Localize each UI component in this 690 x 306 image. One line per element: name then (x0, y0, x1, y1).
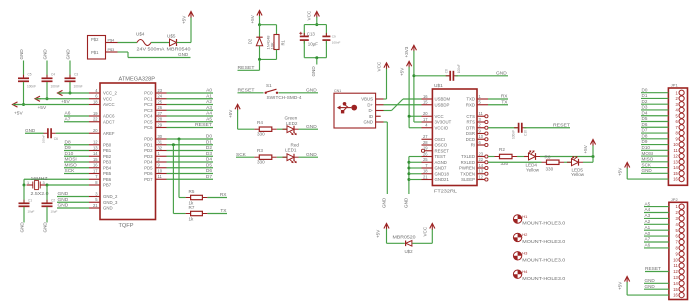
pin 11 (JP2) (674, 263, 685, 268)
wire R3 to LED1 (277, 156, 287, 158)
pin 14 PB2 (89, 151, 112, 159)
svg-text:P$1: P$1 (91, 50, 99, 55)
svg-text:13: 13 (479, 169, 484, 174)
pin 8 PB7 (89, 180, 112, 188)
pin 1 (JP1) (676, 90, 685, 95)
svg-text:GND: GND (645, 278, 656, 283)
wire gnd rail branch (409, 173, 422, 175)
pin 9 (JP2) (676, 251, 685, 256)
svg-text:D4: D4 (206, 157, 212, 163)
pin 27 OSCI (U$1) (422, 134, 446, 142)
diode U$5 MBR0540 (167, 33, 192, 51)
+5V supply (VCC_2 row) (58, 90, 71, 105)
svg-text:A2: A2 (206, 99, 212, 105)
svg-text:12: 12 (479, 174, 484, 179)
svg-text:A4: A4 (206, 111, 212, 117)
net D8 (64, 139, 89, 145)
svg-text:PB6: PB6 (103, 177, 112, 182)
svg-text:A2: A2 (645, 219, 651, 224)
junction (D0/RX) (178, 138, 181, 141)
capacitor C6 100nF (AREF) (42, 128, 58, 143)
pin 10 (JP2) (673, 257, 684, 262)
pin 9 PD5 (144, 163, 166, 171)
svg-text:AGND: AGND (435, 160, 447, 165)
svg-text:USBDM: USBDM (435, 97, 451, 102)
svg-text:13: 13 (673, 275, 678, 280)
svg-text:GND: GND (382, 197, 387, 208)
svg-text:D7: D7 (642, 128, 648, 133)
capacitor C8 100nF (444, 64, 461, 81)
svg-text:10K: 10K (269, 42, 274, 49)
wire diode to VCC (412, 242, 432, 244)
pin 3 (JP1) (676, 102, 685, 107)
svg-text:3V3OUT: 3V3OUT (435, 120, 452, 125)
mounting hole H4 (513, 269, 566, 281)
wire gnd rail branch (409, 179, 422, 181)
pin 7 GND7 (U$1) (422, 163, 448, 171)
net MISO (JP1) (641, 157, 668, 162)
svg-text:USBDP: USBDP (435, 102, 450, 107)
svg-text:RXLED: RXLED (461, 160, 475, 165)
svg-text:RX: RX (501, 94, 508, 100)
svg-text:100nF: 100nF (51, 85, 60, 89)
pin 11 PD7 (144, 174, 166, 182)
wire R2 to LED4 (517, 156, 529, 158)
svg-text:11: 11 (479, 111, 484, 116)
net A2 (167, 99, 214, 105)
svg-text:PC6: PC6 (144, 125, 153, 130)
svg-text:H3: H3 (522, 251, 528, 256)
svg-text:21: 21 (93, 203, 98, 208)
USB-serial U$1 FT232RL (432, 83, 477, 195)
resistor R7 1k (186, 205, 208, 221)
svg-text:15: 15 (423, 100, 428, 105)
svg-text:TXDEN: TXDEN (460, 171, 475, 176)
svg-text:+5V: +5V (61, 99, 70, 105)
svg-text:100nF: 100nF (332, 40, 341, 44)
svg-text:10µF: 10µF (308, 41, 318, 46)
svg-text:26: 26 (158, 105, 163, 110)
pin 21 GND (89, 203, 113, 211)
mounting hole H2 (513, 232, 566, 244)
svg-text:C13: C13 (307, 31, 316, 36)
USB connector CN1 (334, 89, 376, 128)
wire C4 bottom (46, 82, 48, 99)
wire LED4 to +5V rail (540, 156, 593, 158)
wire +5V to JP2 pin16 (626, 282, 628, 295)
pin 26 PC3 (144, 105, 166, 113)
net D2 (JP1) (641, 99, 668, 104)
pin 1 TXD (U$1) (466, 94, 488, 102)
net RESET (PC6) (167, 122, 214, 128)
pin 6 RI (U$1) (471, 140, 488, 148)
svg-text:+3V3: +3V3 (404, 46, 409, 57)
svg-text:ID: ID (369, 114, 373, 119)
svg-text:D5: D5 (206, 162, 212, 168)
svg-text:30: 30 (158, 134, 163, 139)
svg-text:RXD: RXD (466, 102, 475, 107)
svg-text:SWITCH-SMD-4: SWITCH-SMD-4 (267, 95, 302, 100)
wire LED2 to GND (299, 128, 319, 130)
svg-text:A3: A3 (206, 105, 212, 111)
pin 10 (JP1) (673, 142, 684, 147)
wire GND to C6 (25, 132, 44, 134)
net D0 (167, 134, 214, 140)
svg-text:GND: GND (496, 70, 507, 76)
svg-text:D4: D4 (642, 110, 648, 115)
junction (crystal left) (23, 184, 26, 187)
svg-text:TX: TX (220, 208, 227, 214)
wire top rail C13 (304, 24, 326, 26)
svg-text:26: 26 (423, 151, 428, 156)
pin 6 VCC (89, 94, 112, 102)
junction (C13 bottom) (315, 56, 318, 59)
switch S1 SWITCH-SMD-4 (265, 83, 302, 100)
svg-text:PD3: PD3 (144, 154, 153, 159)
pin 3 RTS (U$1) (466, 117, 488, 125)
svg-text:24: 24 (158, 94, 163, 99)
svg-text:VCC: VCC (435, 114, 444, 119)
svg-text:20: 20 (423, 111, 428, 116)
svg-text:GND: GND (642, 168, 653, 173)
wire P$3 to GND (118, 51, 129, 53)
svg-text:VCCIO: VCCIO (435, 125, 449, 130)
pin 6 (JP1) (676, 119, 685, 124)
wire crystal to C2 (46, 185, 48, 203)
net GND (JP2) (644, 278, 669, 283)
svg-text:D+: D+ (367, 102, 373, 107)
svg-text:+5V: +5V (181, 15, 186, 24)
pin 4 VCCIO (U$1) (422, 123, 449, 131)
diode D2 1N4148 (248, 25, 271, 50)
svg-text:GND: GND (403, 197, 408, 208)
svg-text:RESET: RESET (195, 122, 212, 128)
svg-text:PWREN: PWREN (459, 166, 475, 171)
svg-text:C6: C6 (54, 137, 58, 141)
svg-text:A5: A5 (645, 201, 651, 206)
pin 14 (JP2) (673, 281, 684, 286)
svg-text:VCC: VCC (307, 10, 312, 20)
svg-text:R7: R7 (189, 205, 195, 210)
svg-text:A4: A4 (645, 207, 651, 212)
wire C4 top (46, 61, 48, 78)
svg-text:RTS: RTS (466, 120, 475, 125)
pin 19 RESET (U$1) (421, 146, 449, 154)
svg-text:1k: 1k (189, 216, 195, 221)
svg-text:16: 16 (673, 293, 678, 298)
svg-text:100nF: 100nF (74, 85, 83, 89)
net D2 (167, 145, 214, 151)
svg-text:15: 15 (673, 171, 678, 176)
pin 8 (JP1) (676, 130, 685, 135)
VCC supply (USB) (377, 61, 390, 71)
pin 14 (JP1) (673, 165, 684, 170)
+5V supply (bridge) (375, 224, 389, 239)
svg-text:24V 500mA: 24V 500mA (137, 47, 166, 52)
svg-text:R5: R5 (189, 189, 195, 194)
pin VBUS (CN1) (361, 97, 383, 102)
wire C6 to AREF (56, 132, 89, 134)
pin 18 GND18 (U$1) (422, 169, 450, 177)
svg-text:GND_2: GND_2 (103, 194, 118, 199)
svg-text:VCC: VCC (377, 61, 382, 71)
svg-text:10: 10 (479, 134, 484, 139)
net D9 (JP1) (641, 139, 668, 144)
svg-text:GND: GND (19, 222, 24, 233)
svg-text:27: 27 (158, 111, 163, 116)
svg-text:11: 11 (158, 174, 163, 179)
svg-text:RX: RX (220, 192, 227, 198)
svg-text:JP1: JP1 (671, 83, 679, 88)
junction (gnd rail) (407, 178, 410, 181)
wire +5V to AVCC (13, 104, 89, 106)
net D9 (64, 145, 89, 151)
svg-text:12: 12 (673, 154, 678, 159)
pin 2 (JP2) (676, 210, 685, 215)
svg-text:C9: C9 (332, 34, 336, 38)
wire D0 to R5 (178, 139, 180, 198)
capacitor C4 100nF (42, 72, 60, 88)
wire C3 top (69, 61, 71, 78)
wire C1 to ground (23, 207, 25, 223)
+5V supply (JP1) (617, 163, 629, 177)
wire crystal to C1 (23, 185, 25, 203)
svg-text:SLEEP: SLEEP (461, 177, 475, 182)
svg-text:PC5: PC5 (144, 119, 153, 124)
svg-text:C3: C3 (74, 72, 78, 76)
svg-text:13: 13 (673, 159, 678, 164)
capacitor C9 100nF (322, 33, 340, 44)
LED4 yellow (524, 150, 540, 172)
svg-text:330: 330 (257, 160, 265, 165)
svg-text:GND: GND (65, 49, 70, 60)
svg-text:PD5: PD5 (144, 165, 153, 170)
svg-text:+5V: +5V (399, 67, 404, 76)
svg-text:11: 11 (674, 263, 679, 268)
crystal Q1 16MHZ (27, 176, 50, 196)
pin 25 AGND (U$1) (422, 157, 447, 165)
net A7 (64, 116, 89, 122)
svg-text:D-: D- (368, 108, 373, 113)
pin 15 PB3 (89, 157, 112, 165)
svg-text:MISO: MISO (642, 157, 654, 162)
svg-text:S1: S1 (266, 83, 272, 88)
net D1 (167, 139, 214, 145)
svg-text:A0: A0 (645, 231, 651, 236)
VCC supply (bridge) (422, 224, 435, 237)
svg-text:D6: D6 (642, 122, 648, 127)
pin 16 USBDM (U$1) (422, 94, 451, 102)
wire DTR to C10 (488, 127, 518, 129)
wire gnd rail branch (409, 161, 422, 163)
net MOSI (JP1) (641, 151, 668, 156)
mounting hole H3 (513, 251, 566, 263)
svg-text:PB2: PB2 (103, 154, 112, 159)
wire VCC down (316, 17, 318, 25)
USB icon (337, 102, 357, 113)
svg-text:H2: H2 (522, 232, 528, 237)
svg-text:14: 14 (673, 281, 678, 286)
svg-text:ADC6: ADC6 (103, 114, 115, 119)
svg-text:GND: GND (311, 66, 316, 77)
svg-text:DSR: DSR (466, 131, 475, 136)
svg-text:+5V: +5V (375, 229, 380, 238)
svg-text:PC3: PC3 (144, 108, 153, 113)
svg-text:10pF: 10pF (28, 210, 35, 214)
wire R4 to LED2 (277, 128, 287, 130)
svg-text:22: 22 (479, 157, 484, 162)
LED1 red (283, 143, 300, 164)
pin 13 (JP1) (673, 159, 684, 164)
svg-text:SCK: SCK (642, 162, 652, 167)
pin 23 TXLED (U$1) (461, 151, 488, 159)
svg-text:16: 16 (673, 177, 678, 182)
junction (LED rail) (592, 155, 595, 158)
svg-text:15: 15 (93, 157, 98, 162)
svg-text:U$4: U$4 (136, 32, 145, 37)
svg-text:D2: D2 (206, 145, 212, 151)
wire RXLED to R6 (488, 161, 542, 163)
junction (C4) (46, 97, 49, 100)
net D5 (JP1) (641, 116, 668, 121)
resistor R1 10K (269, 35, 285, 50)
svg-text:13: 13 (93, 145, 98, 150)
pin 4 (JP1) (676, 107, 685, 112)
pin P$3 (106, 48, 118, 52)
svg-text:22: 22 (93, 117, 98, 122)
pin 15 USBDP (U$1) (422, 100, 450, 108)
svg-text:U$1: U$1 (434, 83, 443, 89)
pin 10 DCD (U$1) (466, 134, 488, 142)
pin 4 VCC_2 (89, 88, 117, 96)
wire D2 bottom (259, 46, 261, 60)
wire top rail (260, 24, 277, 26)
+5V supply (AVCC row) (13, 102, 24, 116)
svg-text:LED1: LED1 (285, 148, 297, 153)
net D6 (JP1) (641, 122, 668, 127)
net SCK (64, 168, 89, 174)
pin 13 TXDEN (U$1) (460, 169, 488, 177)
pin 18 AVCC (89, 99, 115, 107)
pin 11 CTS (U$1) (466, 111, 488, 119)
svg-text:GND: GND (25, 128, 36, 133)
svg-text:14: 14 (93, 151, 98, 156)
wire R5 to RX (207, 197, 227, 199)
pin 1 (JP2) (676, 204, 685, 209)
pin 13 PB1 (89, 145, 112, 153)
svg-text:GND: GND (42, 49, 47, 60)
pin 32 PD2 (144, 145, 166, 153)
pin 2 (JP1) (676, 96, 685, 101)
net MISO (64, 162, 89, 168)
svg-text:C2: C2 (51, 198, 55, 202)
wire VBUS to VCC (384, 98, 387, 100)
svg-text:R6: R6 (545, 154, 551, 159)
svg-text:R3: R3 (257, 148, 263, 153)
junction (VCC pin20) (408, 115, 411, 118)
net D10 (64, 151, 89, 157)
ground label GND (MCU) (57, 197, 89, 203)
svg-text:ATMEGA328P: ATMEGA328P (119, 77, 156, 83)
svg-text:GND7: GND7 (435, 166, 448, 171)
svg-text:25: 25 (423, 157, 428, 162)
svg-text:15: 15 (673, 287, 678, 292)
wire C5 top (23, 61, 25, 78)
net A4 (167, 111, 214, 117)
svg-text:R2: R2 (499, 147, 505, 152)
net A6 (JP2) (644, 243, 669, 248)
svg-text:17: 17 (93, 168, 98, 173)
net A7 (JP2) (644, 237, 669, 242)
svg-text:Green: Green (285, 115, 298, 120)
pin 22 RXLED (U$1) (461, 157, 488, 165)
capacitor C3 100nF (65, 72, 83, 88)
svg-text:32: 32 (158, 145, 163, 150)
wire to RESET label (259, 59, 261, 70)
LED5 yellow (567, 156, 585, 177)
net D7 (167, 174, 214, 180)
svg-text:Yellow: Yellow (571, 172, 585, 177)
pin 12 (JP1) (673, 153, 684, 158)
svg-text:GND: GND (178, 52, 189, 57)
junction (3V3 cap tap) (412, 74, 415, 77)
svg-text:A6: A6 (645, 243, 651, 248)
svg-text:CN1: CN1 (334, 89, 341, 93)
resistor R6 330 (542, 154, 565, 171)
net RESET (JP2) (645, 266, 669, 271)
ground label GND (MCU) (57, 203, 89, 209)
svg-text:D3: D3 (642, 105, 648, 110)
svg-text:MBR0520: MBR0520 (393, 235, 417, 240)
svg-text:OSCI: OSCI (435, 137, 446, 142)
svg-text:10: 10 (158, 168, 163, 173)
capacitor C13 10uF polarized (299, 31, 318, 46)
svg-text:100nF: 100nF (457, 64, 461, 73)
wire USB GND down (384, 121, 388, 123)
capacitor C5 100nF (18, 72, 36, 88)
svg-text:GND: GND (363, 120, 373, 125)
wire R6 to LED5 (564, 161, 572, 163)
pin 14 PWREN (U$1) (459, 163, 488, 171)
wire diode to +5V (177, 42, 192, 44)
svg-text:+5V: +5V (14, 110, 23, 116)
wire C10 to RESET (524, 127, 570, 129)
pin 2 PD4 (144, 157, 166, 165)
svg-text:PD4: PD4 (144, 160, 153, 165)
svg-text:R1: R1 (280, 39, 285, 45)
net D10 (JP1) (641, 145, 668, 150)
capacitor C2 10pF (42, 198, 58, 213)
pin GND (CN1) (363, 120, 383, 125)
wire D1 to R7 (172, 145, 174, 214)
svg-text:21: 21 (423, 174, 428, 179)
wire R7 to TX (207, 213, 227, 215)
svg-text:16: 16 (93, 163, 98, 168)
svg-text:18: 18 (93, 99, 98, 104)
svg-text:28: 28 (423, 140, 428, 145)
wire +5V bridge (386, 229, 388, 243)
svg-text:PC0: PC0 (144, 91, 153, 96)
svg-text:14: 14 (673, 165, 678, 170)
svg-text:11: 11 (674, 148, 679, 153)
svg-text:2.5X2.0: 2.5X2.0 (31, 191, 50, 196)
+5V supply (LEDs) (583, 140, 595, 154)
svg-text:MOUNT-HOLE3.0: MOUNT-HOLE3.0 (522, 239, 566, 244)
net GND (JP2) (644, 284, 669, 289)
pin 11 (JP1) (674, 148, 685, 153)
svg-text:10: 10 (673, 142, 678, 147)
+5V supply symbol (top) (181, 12, 193, 25)
